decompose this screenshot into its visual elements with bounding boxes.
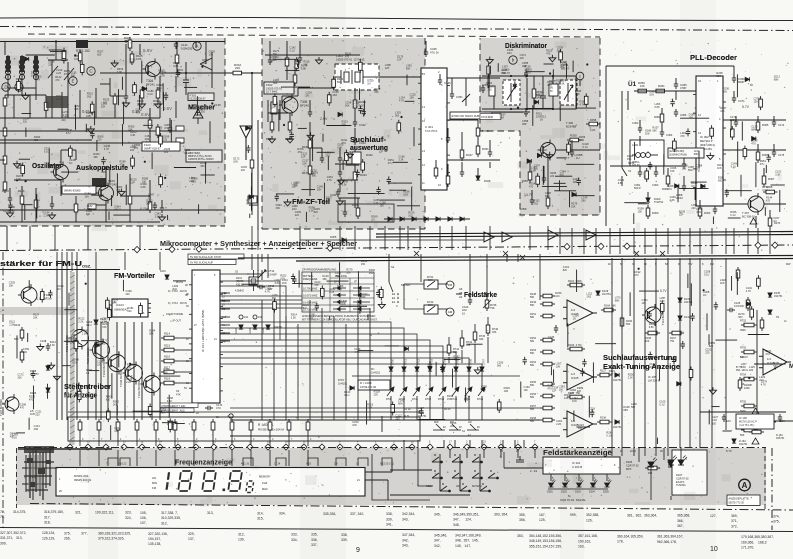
display feed vertical 6	[193, 433, 195, 446]
svg-text:820: 820	[34, 139, 39, 142]
wire segment (fmzf filler 20)	[359, 88, 361, 100]
table row symbol zf1 1	[353, 293, 370, 297]
display feed vertical 3	[136, 433, 138, 446]
svg-text:68N: 68N	[398, 402, 403, 405]
svg-text:15K: 15K	[374, 91, 379, 94]
wire inter-section v17	[547, 226, 549, 250]
wire segment disk v0	[487, 76, 489, 88]
svg-text:33K: 33K	[163, 372, 168, 375]
wire segment icright v7	[489, 140, 491, 152]
IC201 data pin wire 3	[220, 307, 302, 309]
wire segment mischer h9	[0, 159, 5, 161]
ZF-Programmierung table frame	[302, 272, 374, 312]
svg-text:D712: D712	[425, 398, 432, 401]
resistor R350 2.2K	[567, 138, 582, 142]
resistor R754 col	[741, 377, 757, 381]
cap in band	[516, 456, 524, 462]
svg-text:33K: 33K	[453, 351, 458, 354]
right bus vertical 0	[611, 258, 613, 448]
IC302 ME7310P PLL	[693, 76, 726, 206]
base resistor wire 3	[177, 371, 192, 373]
FSA pin down 3	[592, 474, 594, 481]
D206 down	[650, 467, 652, 500]
svg-text:F302: F302	[266, 83, 273, 87]
R745 bot wire	[474, 344, 476, 363]
warning triangle symbol	[750, 218, 757, 224]
resistor R334 560	[270, 119, 274, 133]
junction node (mischer filler)	[144, 161, 146, 163]
diode D703 matrix top	[415, 367, 419, 371]
svg-text:E2: E2	[392, 296, 396, 300]
svg-text:M: M	[789, 363, 793, 370]
IC201 data pin wire 1	[220, 299, 302, 301]
svg-text:820: 820	[202, 62, 207, 65]
switch S2 symbol	[389, 282, 393, 292]
svg-text:D701: D701	[405, 358, 408, 365]
disk rail 2	[484, 111, 530, 113]
op-amp 1/4 IC105 unit 2	[563, 364, 597, 390]
IC301 top wire	[425, 41, 427, 49]
resistor C384 (mischer filler)	[80, 61, 84, 75]
svg-text:1N: 1N	[148, 196, 151, 199]
svg-text:317,: 317,	[44, 515, 51, 519]
resistor R171 68	[761, 420, 776, 424]
svg-text:Auskoppelstufe: Auskoppelstufe	[76, 163, 128, 172]
left bus vertical low 7	[159, 322, 161, 420]
PLL left vertical	[605, 66, 607, 226]
resistor R335 100	[285, 55, 289, 69]
connector diamond 7	[193, 444, 199, 450]
wire segment icright v10	[461, 162, 463, 172]
svg-text:1N4151: 1N4151	[371, 370, 381, 374]
svg-text:Z11: Z11	[244, 316, 249, 319]
capacitor C339 4.7N	[338, 169, 342, 177]
wire segment (diskriminator filler 3)	[497, 63, 499, 72]
svg-text:126,129,: 126,129,	[42, 536, 55, 540]
svg-text:100: 100	[130, 149, 135, 152]
svg-text:KHZ: KHZ	[262, 481, 268, 485]
resistor R-MODUL r13	[306, 419, 310, 433]
capacitor CT10 AM IN	[197, 289, 205, 293]
svg-text:D101: D101	[160, 270, 166, 273]
svg-text:5A: 5A	[665, 263, 668, 266]
svg-text:100: 100	[524, 389, 529, 392]
svg-text:D716: D716	[477, 398, 484, 401]
svg-text:( UA 78 L 05 ): ( UA 78 L 05 )	[739, 424, 754, 427]
diode D714 matrix lower	[439, 387, 446, 396]
transistor T1012 BC5598	[141, 373, 161, 396]
right bus vertical 3	[644, 258, 646, 448]
svg-text:30P: 30P	[522, 122, 527, 126]
svg-text:15K: 15K	[627, 158, 632, 161]
wire segment disk v14	[571, 140, 573, 152]
svg-text:56K: 56K	[530, 340, 535, 343]
display feed vertical 7	[212, 433, 214, 446]
diode D129 TN4751	[596, 291, 600, 295]
diode column wire lower 4	[442, 396, 444, 420]
wire inter-section v5	[339, 226, 341, 250]
resistor R745 33K	[473, 329, 477, 343]
svg-text:33K: 33K	[74, 108, 79, 111]
svg-text:347,344,: 347,344,	[402, 533, 415, 537]
resistor R176 (diskriminator-low filler)	[536, 173, 540, 187]
connector diamond right 3	[498, 444, 504, 450]
wire segment mischer v42	[129, 174, 131, 196]
wire inter-section v7	[369, 226, 371, 250]
wire segment (diskriminator filler 10)	[532, 105, 534, 126]
capacitor C356 30P	[524, 109, 528, 117]
crystal vertical bottom	[253, 285, 255, 291]
wire PLL-to-rail vertical 16	[747, 228, 749, 254]
svg-text:352,358,: 352,358,	[586, 513, 599, 517]
circled FM	[446, 281, 454, 289]
connector diamond 1	[85, 444, 91, 450]
shaded strip left mid	[0, 307, 75, 315]
svg-text:R366: R366	[762, 153, 769, 157]
junction node (fmzf filler)	[283, 124, 285, 126]
svg-text:1K8: 1K8	[282, 282, 287, 285]
svg-text:10K: 10K	[640, 84, 645, 88]
display feed vertical 9	[250, 433, 252, 446]
diode D707	[350, 386, 354, 390]
svg-text:374,: 374,	[773, 514, 780, 518]
svg-text:5.7V: 5.7V	[660, 289, 667, 293]
table row symbol zf1 2	[353, 300, 370, 304]
svg-text:1K8: 1K8	[645, 133, 650, 136]
LED D202	[563, 479, 570, 487]
wire segment (fmzf filler 16)	[388, 182, 412, 184]
resistor R333 330	[288, 119, 292, 133]
svg-text:220: 220	[35, 413, 40, 416]
wire segment mischer v32	[176, 64, 178, 73]
wire segment fmzf v17	[339, 180, 341, 192]
wire segment disk v6	[552, 76, 554, 84]
svg-text:D206: D206	[626, 460, 633, 464]
wire segment (diskriminator-low filler 4)	[573, 195, 595, 197]
capacitor D252 (mischer filler)	[101, 157, 105, 165]
left bus vertical 3	[76, 270, 78, 420]
wire segment fmzf v5	[281, 96, 283, 105]
mid rail A2	[296, 259, 793, 262]
cap C329 box	[176, 138, 184, 143]
svg-text:348,149,153,156,158,: 348,149,153,156,158,	[529, 539, 562, 543]
wire segment pll v3	[733, 91, 735, 98]
svg-text:95A 139 G: 95A 139 G	[736, 369, 748, 372]
resistor R753 col	[741, 350, 757, 354]
capacitor C123 4.7N	[160, 205, 164, 213]
ground mischer 3	[123, 100, 130, 107]
left bus vertical low 1	[107, 322, 109, 420]
svg-text:56K: 56K	[530, 364, 535, 367]
resistor R343 680K	[353, 169, 357, 183]
diode D127	[615, 373, 619, 377]
svg-text:0.6V: 0.6V	[163, 106, 172, 111]
wire segment disk v15	[575, 76, 577, 109]
svg-text:1N4751: 1N4751	[774, 295, 783, 298]
resistor R118 base	[161, 381, 177, 385]
svg-text:BF2x0: BF2x0	[44, 296, 52, 300]
resistor R179 220	[308, 163, 312, 177]
svg-text:15K: 15K	[9, 285, 14, 288]
wire segment pll v16	[667, 168, 669, 176]
capacitor C369 820P	[732, 75, 736, 83]
R744 bot wire	[461, 350, 463, 363]
junction node (fmzf filler)	[400, 116, 402, 118]
wire segment mischer v7	[125, 44, 127, 62]
base resistor wire 1	[177, 349, 192, 351]
switch cluster rail 1	[390, 469, 432, 471]
bus wire to diode column 5	[220, 352, 456, 366]
table row symbol zf0 0	[333, 286, 346, 290]
bus wire to diode column 3	[220, 340, 430, 366]
wire segment pll v13	[683, 158, 685, 164]
band right vertical 3	[644, 448, 646, 456]
L307 arrow symbol	[507, 83, 516, 102]
IC103 U896/5EAZ prescaler	[109, 299, 151, 317]
wire segment (fmzf filler 10)	[278, 109, 280, 131]
resistor D145 (pll filler)	[645, 168, 649, 182]
svg-text:56K: 56K	[530, 384, 535, 387]
wire segment (diskriminator-low filler 8)	[554, 182, 566, 184]
component R101 dark block	[76, 40, 88, 48]
display left smudge	[24, 446, 54, 453]
bus wire to diode column 0	[220, 322, 391, 366]
svg-text:4.7K: 4.7K	[399, 100, 404, 103]
svg-text:2N2: 2N2	[524, 69, 529, 72]
svg-text:09647-028.97: 09647-028.97	[144, 147, 161, 151]
base resistor wire 4	[177, 382, 192, 384]
svg-text:345,346,: 345,346,	[434, 533, 447, 537]
bottom feed vertical 1	[417, 440, 419, 448]
bottom feed vertical 0	[403, 440, 405, 448]
wire segment mischer h8	[100, 83, 110, 85]
band right vertical 4	[655, 448, 657, 456]
wire segment fmzf h4	[338, 179, 358, 181]
svg-text:R755: R755	[740, 401, 747, 404]
rail drop v4	[388, 254, 390, 262]
svg-text:1N: 1N	[773, 220, 776, 223]
wire segment pll v6	[639, 120, 641, 128]
bus wire to diode column 4	[220, 346, 443, 366]
svg-text:56K: 56K	[530, 420, 535, 423]
svg-text:470: 470	[55, 79, 60, 82]
svg-text:15K: 15K	[638, 211, 643, 214]
switch S233	[622, 158, 627, 186]
svg-text:R360: R360	[652, 211, 659, 215]
svg-text:15K: 15K	[447, 398, 452, 401]
diode D136	[615, 420, 619, 424]
capacitor C366 0.22U	[674, 109, 678, 117]
resistor R349 56K	[476, 125, 480, 139]
wire segment (fmzf filler 8)	[413, 127, 415, 146]
svg-text:4.7K: 4.7K	[158, 72, 163, 75]
ground (diskriminator filler)	[549, 55, 556, 62]
diode column wire 4	[442, 366, 444, 388]
wire segment mischer v50	[35, 210, 37, 222]
resistor D299 (pll filler)	[731, 126, 735, 140]
resistor C338 (diskriminator-low filler)	[567, 141, 571, 155]
svg-text:220: 220	[749, 369, 754, 372]
LED D206	[648, 458, 657, 468]
svg-text:R136: R136	[600, 417, 607, 420]
diode row rail	[384, 218, 470, 220]
wire segment (mischer filler 25)	[22, 113, 32, 115]
resistor left column R310	[3, 95, 7, 109]
diode D348 A7	[476, 176, 480, 180]
svg-text:343,: 343,	[402, 544, 409, 548]
svg-text:309,: 309,	[0, 541, 7, 545]
svg-text:339,: 339,	[386, 517, 393, 521]
wire segment (mischer filler 28)	[209, 121, 211, 143]
diode D146	[46, 388, 50, 392]
capacitor C118 12P	[50, 201, 54, 209]
display unit box	[56, 468, 365, 497]
svg-text:R351: R351	[482, 147, 489, 151]
capacitor C336 4.7N	[308, 109, 312, 117]
svg-text:6.8K: 6.8K	[655, 106, 660, 109]
capacitor D183 (fmzf filler)	[275, 193, 279, 201]
svg-text:750: 750	[670, 340, 675, 343]
wire segment icright v1	[451, 78, 453, 94]
wire inter-section v11	[419, 226, 421, 250]
diode D135 right	[768, 293, 772, 297]
svg-text:56K: 56K	[406, 68, 411, 71]
svg-text:68N: 68N	[191, 180, 196, 183]
display digit 1	[167, 472, 169, 489]
capacitor R239 (mischer filler)	[164, 92, 168, 100]
wire segment fmzf v22	[344, 200, 346, 212]
FM-ZF signal wire	[298, 87, 340, 89]
diode D305 row2	[342, 238, 346, 242]
diode column wire 3	[429, 366, 431, 388]
diode D144b	[732, 439, 736, 443]
svg-text:100: 100	[164, 151, 169, 154]
svg-text:1N4751: 1N4751	[776, 437, 785, 440]
IC201 right pin stub 0	[220, 292, 230, 294]
IC201 right pin stub 2	[220, 308, 230, 310]
capacitor C127 0.33	[722, 414, 726, 422]
wire segment (diskriminator-low filler 7)	[542, 166, 544, 185]
bottom dash-dot border above numbers	[30, 504, 793, 511]
wire left section feed 0	[56, 252, 58, 270]
resistor D359 (mischer filler)	[159, 174, 163, 188]
diode column wire lower 2	[416, 396, 418, 420]
svg-text:341,: 341,	[386, 523, 393, 527]
svg-text:3.3K: 3.3K	[398, 159, 403, 162]
wire segment (diskriminator filler 6)	[566, 63, 568, 79]
wire inter-section v15	[489, 226, 491, 250]
svg-text:R=: R=	[371, 367, 375, 371]
mid dash-dot divider	[0, 245, 793, 251]
rail drop v7	[486, 254, 488, 258]
resistor R756 col	[741, 428, 757, 432]
svg-text:R754: R754	[740, 374, 747, 377]
diode D716 matrix lower	[465, 387, 472, 396]
svg-text:F103: F103	[144, 143, 151, 147]
trimmer R746 arrow	[483, 300, 491, 308]
svg-text:9: 9	[356, 547, 360, 554]
resistor R260 (fmzf filler)	[327, 92, 331, 106]
Mischer rail y140	[0, 139, 92, 141]
wire segment (mischer filler 21)	[205, 163, 207, 184]
diode D233 (pll filler)	[675, 184, 679, 188]
svg-text:324,: 324,	[125, 516, 132, 520]
resistor R746 33K	[486, 322, 490, 336]
far right vertical 2	[756, 310, 758, 430]
resistor R743 33K	[447, 342, 451, 356]
junction node (diskriminator filler)	[517, 107, 519, 109]
capacitor D236 (diskriminator filler)	[513, 81, 517, 89]
resistor R362 5.1K	[660, 111, 664, 125]
wire segment fmzf v1	[286, 41, 288, 58]
svg-text:500 P: 500 P	[634, 186, 641, 190]
circled AM	[446, 308, 454, 316]
capacitor C367 50U	[682, 161, 686, 169]
transistor T1010 BC5598	[106, 352, 126, 375]
page top edge line	[0, 17, 793, 20]
wire segment (fmzf filler 14)	[273, 58, 296, 60]
resistor R358 2.2K	[586, 122, 601, 126]
svg-text:334,: 334,	[279, 512, 286, 516]
wire segment pll v0	[675, 78, 677, 84]
wire across y240	[300, 239, 484, 241]
wire segment pll v17	[683, 176, 685, 186]
wire segment mischer v44	[9, 188, 11, 198]
svg-text:137,: 137,	[188, 537, 195, 541]
connector diamond 20	[427, 444, 433, 450]
svg-text:19799-121.96: 19799-121.96	[360, 385, 377, 389]
resistor R359b 220	[546, 195, 550, 209]
base resistor wire 0	[177, 337, 192, 339]
svg-text:337, 340,: 337, 340,	[350, 512, 364, 516]
svg-text:107,: 107,	[140, 521, 147, 525]
wire left section feed 6	[124, 252, 126, 270]
display top pin hook 5	[336, 458, 346, 466]
diode R324 (diskriminator filler)	[534, 100, 538, 104]
capacitor R323 (fmzf filler)	[362, 109, 366, 117]
rail drop v10	[539, 254, 541, 300]
svg-text:314,: 314,	[257, 511, 264, 515]
wire segment (fmzf filler 3)	[411, 187, 413, 211]
transistor T106 BF240	[18, 284, 37, 306]
wire segment fmzf v19	[321, 148, 323, 158]
svg-text:10N: 10N	[556, 366, 561, 369]
wire segment mischer v48	[161, 200, 163, 208]
bus wire to diode column 2	[220, 334, 417, 366]
wire segment (diskriminator-low filler 0)	[559, 180, 561, 191]
svg-text:C342: C342	[359, 123, 366, 127]
wire inter-section v14	[465, 226, 467, 250]
capacitor CT12 FM IN	[197, 301, 205, 305]
svg-text:0.1U: 0.1U	[147, 93, 152, 96]
svg-text:ZF 1: ZF 1	[354, 281, 360, 284]
svg-text:12P: 12P	[130, 182, 135, 185]
wire PLL-to-rail vertical 1	[571, 228, 573, 254]
wire segment mischer v13	[55, 41, 57, 60]
capacitor C355 30P	[524, 70, 528, 78]
wire segment (diskriminator filler 2)	[494, 111, 523, 113]
diode D106 matrix	[266, 325, 270, 329]
svg-text:12P: 12P	[552, 390, 557, 393]
wire segment fmzf h2	[310, 147, 322, 149]
connector diamond 2	[103, 444, 109, 450]
capacitor C187 4.7N	[320, 155, 324, 163]
svg-text:347, 124,: 347, 124,	[453, 518, 472, 522]
resistor R-MODUL r8	[211, 419, 215, 433]
wire segment pll v4	[661, 108, 663, 114]
jumper Z11 symbol	[239, 315, 243, 319]
svg-text:327,307,352,372,: 327,307,352,372,	[0, 531, 26, 535]
